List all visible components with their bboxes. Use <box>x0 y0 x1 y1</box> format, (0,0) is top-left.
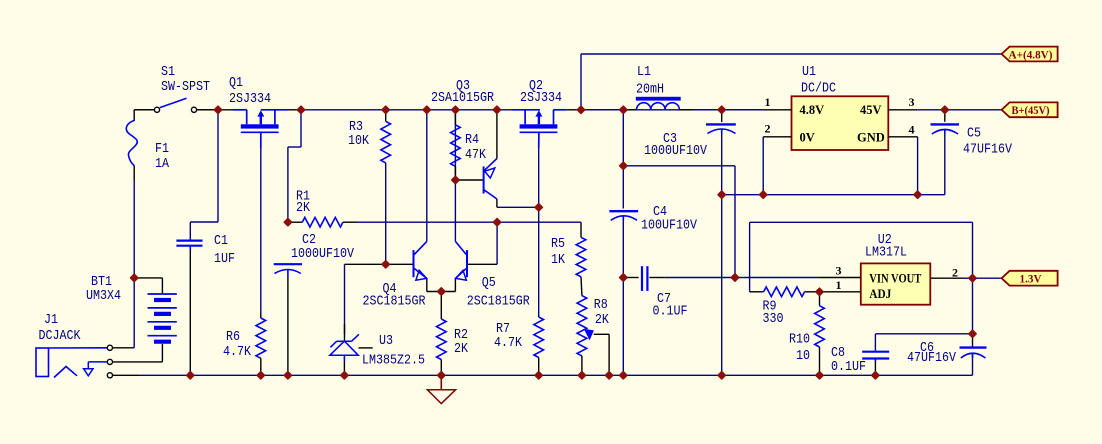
transistor Q5 2SC1815GR <box>455 241 467 280</box>
label S1 <box>161 65 175 80</box>
svg-text:VIN VOUT: VIN VOUT <box>869 271 922 285</box>
capacitor C7 <box>623 266 665 291</box>
wire U1 pin2 drop <box>762 137 764 195</box>
pin number 1 (U2) <box>836 278 842 292</box>
label 2SJ334 (Q1) <box>229 92 271 107</box>
wire bottom ground rail <box>139 374 973 376</box>
svg-text:C5: C5 <box>967 127 981 142</box>
svg-text:Q1: Q1 <box>229 76 243 91</box>
wire U3 riser <box>344 264 346 334</box>
svg-text:2SC1815GR: 2SC1815GR <box>467 295 530 310</box>
svg-text:2SA1015GR: 2SA1015GR <box>431 91 494 106</box>
svg-text:10: 10 <box>796 349 810 364</box>
label LM385Z2.5 <box>362 354 425 369</box>
svg-text:S1: S1 <box>161 65 175 80</box>
label 20mH <box>636 83 664 98</box>
junction (455.4,109.8) <box>451 105 461 115</box>
label C5 <box>967 127 981 142</box>
label 100UF10V <box>641 219 698 234</box>
capacitor C2 <box>274 264 302 375</box>
capacitor C3 <box>706 110 736 134</box>
label R1 <box>296 190 310 205</box>
svg-text:4.8V: 4.8V <box>800 103 825 117</box>
resistor R4 <box>451 110 461 180</box>
label J1 <box>44 313 58 328</box>
label 4.7K (R6) <box>223 345 252 360</box>
wire J1 pin1 riser <box>133 180 135 348</box>
svg-text:2: 2 <box>952 266 958 280</box>
junction (385.7,109.8) <box>381 105 391 115</box>
junction (301,109.8) <box>296 105 306 115</box>
label 1UF <box>214 252 235 267</box>
svg-text:2SJ334: 2SJ334 <box>229 92 271 107</box>
junction (875.4,375.3) <box>871 370 881 380</box>
wire C1 branch jog <box>190 110 218 239</box>
label 47UF16V (C6) <box>907 351 957 366</box>
svg-text:0.1UF: 0.1UF <box>653 305 688 320</box>
label 2K (R8) <box>595 313 610 328</box>
pin name 0V <box>800 130 815 144</box>
diode U3 LM385Z2.5 <box>330 324 373 375</box>
svg-text:1: 1 <box>765 95 771 109</box>
capacitor C4 <box>609 211 638 220</box>
label R4 <box>465 133 479 148</box>
junction (721.7,109.8) <box>717 105 727 115</box>
pin U1.4 <box>888 136 917 138</box>
junction (581.9,375.3) <box>577 370 587 380</box>
label UM3X4 <box>86 289 121 304</box>
svg-text:ADJ: ADJ <box>869 287 891 301</box>
resistor R10 <box>815 292 825 376</box>
junction (441.3,291.5) <box>436 287 446 297</box>
svg-text:C1: C1 <box>214 234 228 249</box>
label 10 <box>796 349 810 364</box>
wire C2 branch jog <box>288 110 301 222</box>
junction (218,109.8) <box>213 105 223 115</box>
label Q5 <box>482 276 496 291</box>
junction (763.2,194.7) <box>758 190 768 200</box>
svg-text:U3: U3 <box>379 334 393 349</box>
junction (623.3,165.8) <box>618 161 628 171</box>
svg-text:2: 2 <box>765 122 771 136</box>
label 1A <box>155 157 170 172</box>
svg-text:2SJ334: 2SJ334 <box>520 91 562 106</box>
wire node to VIN riser <box>623 166 735 278</box>
pin U1.2 <box>763 136 791 138</box>
label Q3 <box>456 79 470 94</box>
svg-text:1: 1 <box>836 278 842 292</box>
svg-text:2K: 2K <box>296 201 311 216</box>
capacitor C1 <box>176 239 202 376</box>
svg-text:10K: 10K <box>348 134 370 149</box>
battery BT1 bottom lead <box>139 344 162 362</box>
wire C7 to VIN <box>665 277 820 279</box>
label C6 <box>920 341 934 356</box>
svg-text:2K: 2K <box>595 313 610 328</box>
pin name ADJ <box>869 287 891 301</box>
wire VOUT to flag <box>963 277 1002 279</box>
pin U1.1 <box>763 109 792 111</box>
junction (735,277.5) <box>730 273 740 283</box>
pin name VIN VOUT <box>869 271 922 285</box>
wire R3 bottom to Q4 base <box>385 163 387 264</box>
svg-text:100UF10V: 100UF10V <box>641 219 698 234</box>
label F1 <box>155 142 169 157</box>
label R7 <box>496 322 510 337</box>
junction (497.1,222.2) <box>492 217 502 227</box>
svg-text:330: 330 <box>763 312 784 327</box>
svg-text:J1: J1 <box>44 313 58 328</box>
label C7 <box>657 292 671 307</box>
junction (581,109.8) <box>576 105 586 115</box>
svg-text:R4: R4 <box>465 133 479 148</box>
resistor R2 <box>437 319 447 375</box>
component U1 DC/DC <box>792 96 889 150</box>
label R3 <box>349 120 363 135</box>
junction (819.5,291.8) <box>815 287 825 297</box>
svg-text:2K: 2K <box>454 342 469 357</box>
svg-text:1UF: 1UF <box>214 252 235 267</box>
label LM317L <box>865 246 907 261</box>
svg-text:R8: R8 <box>594 298 608 313</box>
pin number 4 (U1) <box>909 123 915 137</box>
label 47UF16V (C5) <box>963 142 1013 157</box>
fuse F1 <box>126 110 137 180</box>
wire emitters join <box>427 279 456 320</box>
resistor R1 <box>288 217 357 227</box>
svg-text:R6: R6 <box>226 330 240 345</box>
svg-text:C2: C2 <box>302 233 316 248</box>
svg-text:4.7K: 4.7K <box>494 336 523 351</box>
svg-text:0.1UF: 0.1UF <box>831 360 866 375</box>
svg-text:1A: 1A <box>155 157 170 172</box>
svg-text:3: 3 <box>836 264 842 278</box>
label Q2 <box>529 79 543 94</box>
label DCJACK <box>39 329 82 344</box>
wire C4 bottom to gnd <box>622 220 624 375</box>
wire C4 branch <box>622 110 624 209</box>
svg-text:0V: 0V <box>800 130 815 144</box>
svg-text:3: 3 <box>909 95 915 109</box>
pin number 3 (U2) <box>836 264 842 278</box>
label C4 <box>653 205 667 220</box>
wire Q4 collector riser <box>426 110 428 242</box>
junction (944.8,109.8) <box>940 105 950 115</box>
label 2SC1815GR (Q5) <box>467 295 530 310</box>
junction (385.7,264.3) <box>381 259 391 269</box>
label 1000UF10V (C2) <box>291 247 355 262</box>
transistor Q3 2SA1015GR <box>455 110 497 199</box>
pin name 45V <box>860 103 882 117</box>
pin number 1 (U1) <box>765 95 771 109</box>
capacitor C8 <box>862 352 889 376</box>
wire L1 net left <box>581 109 623 111</box>
wire C3 gnd riser <box>721 134 723 376</box>
svg-text:4: 4 <box>909 123 915 137</box>
label 0.1UF (C7) <box>653 305 688 320</box>
junction (721.7,194.7) <box>717 190 727 200</box>
label L1 <box>637 65 651 80</box>
svg-text:1.3V: 1.3V <box>1020 272 1042 286</box>
wire C6 stem <box>972 334 974 376</box>
svg-text:47UF16V: 47UF16V <box>907 351 957 366</box>
junction (623.3,375.3) <box>618 370 628 380</box>
wire A+ riser and top rail to flag <box>581 54 1002 110</box>
wire Q1 gate to R6 <box>260 148 262 314</box>
label R2 <box>454 328 468 343</box>
pin U1.3 <box>888 109 917 111</box>
transistor Q4 2SC1815GR <box>414 241 427 280</box>
label C8 <box>831 346 845 361</box>
junction (426.8,109.8) <box>422 105 432 115</box>
label C2 <box>302 233 316 248</box>
label 1000UF10V (C3) <box>644 144 708 159</box>
wire U1 pin4 drop <box>917 137 919 195</box>
wire C5 branch <box>918 110 945 195</box>
junction (972.5,333.8) <box>968 329 978 339</box>
wire top rail left <box>134 109 247 111</box>
component U2 LM317L <box>861 263 931 304</box>
label U1 <box>802 65 816 80</box>
pin number 2 (U2) <box>952 266 958 280</box>
label 2K (R1) <box>296 201 311 216</box>
svg-text:F1: F1 <box>155 142 169 157</box>
junction (538.7,375.3) <box>534 370 544 380</box>
label R8 <box>594 298 608 313</box>
label 330 <box>763 312 784 327</box>
pin U2.2 <box>930 277 963 279</box>
svg-text:R7: R7 <box>496 322 510 337</box>
junction (260.8,375.3) <box>256 370 266 380</box>
junction (538.7,207.3) <box>534 202 544 212</box>
svg-text:Q5: Q5 <box>482 276 496 291</box>
pin name 4.8V <box>800 103 825 117</box>
label Q4 <box>383 282 397 297</box>
wire top rail right <box>567 109 763 111</box>
svg-text:A+(4.8V): A+(4.8V) <box>1009 47 1053 61</box>
svg-text:DC/DC: DC/DC <box>801 81 836 96</box>
label 1K <box>551 253 566 268</box>
transistor Q1 2SJ334 <box>233 110 288 148</box>
svg-text:4.7K: 4.7K <box>223 345 252 360</box>
label BT1 <box>91 275 112 290</box>
label U2 <box>878 233 892 248</box>
svg-text:C8: C8 <box>831 346 845 361</box>
battery BT1 UM3X4 <box>134 278 162 294</box>
wire U1 gnd return <box>722 194 945 196</box>
transistor Q2 2SJ334 <box>512 110 567 148</box>
junction (819.5,375.3) <box>815 370 825 380</box>
junction (609.1,375.3) <box>604 370 614 380</box>
pin U2.3 <box>820 277 861 279</box>
junction (917.6,194.7) <box>913 190 923 200</box>
svg-text:47K: 47K <box>465 148 487 163</box>
wire C8 top link <box>875 334 972 351</box>
power flag 1.3V <box>1002 271 1058 286</box>
label R10 <box>789 333 810 348</box>
junction (721.7,375.3) <box>717 370 727 380</box>
wire Q4 base <box>345 263 414 265</box>
resistor R3 <box>381 110 391 163</box>
power flag B+(45V) <box>1002 102 1058 117</box>
junction (972.5,278.2) <box>968 273 978 283</box>
svg-text:47UF16V: 47UF16V <box>963 142 1013 157</box>
resistor R6 <box>256 314 266 376</box>
label 10K <box>348 134 370 149</box>
switch S1 SW-SPST <box>134 98 218 112</box>
label 2SJ334 (Q2) <box>520 91 562 106</box>
svg-text:R3: R3 <box>349 120 363 135</box>
svg-text:R5: R5 <box>551 237 565 252</box>
wire Q3 collector to Q2 gate <box>497 199 539 207</box>
power flag A+(4.8V) <box>1002 47 1058 62</box>
wire VOUT to C6 <box>972 278 974 334</box>
resistor R7 <box>534 317 544 375</box>
label R5 <box>551 237 565 252</box>
pin U2.1 <box>820 291 861 293</box>
junction (287.9,375.3) <box>283 370 293 380</box>
svg-text:2SC1815GR: 2SC1815GR <box>363 295 426 310</box>
resistor R9 <box>764 287 820 297</box>
ground <box>427 375 455 403</box>
resistor R5 <box>576 237 586 295</box>
wire R8 wiper to gnd <box>594 334 609 375</box>
pin number 3 (U1) <box>909 95 915 109</box>
capacitor C6 <box>960 348 987 358</box>
label SW-SPST <box>161 80 210 95</box>
battery BT1 plates <box>148 294 177 342</box>
label R9 <box>763 300 777 315</box>
svg-text:R2: R2 <box>454 328 468 343</box>
junction (455.4,180) <box>451 175 461 185</box>
svg-text:1000UF10V: 1000UF10V <box>291 247 355 262</box>
svg-text:U1: U1 <box>802 65 816 80</box>
svg-text:1000UF10V: 1000UF10V <box>644 144 708 159</box>
wire VOUT loop <box>750 222 973 291</box>
svg-text:LM385Z2.5: LM385Z2.5 <box>362 354 425 369</box>
svg-text:R10: R10 <box>789 333 810 348</box>
label 2SA1015GR <box>431 91 494 106</box>
label DC/DC <box>801 81 836 96</box>
svg-text:BT1: BT1 <box>91 275 112 290</box>
svg-text:LM317L: LM317L <box>865 246 907 261</box>
label 4.7K (R7) <box>494 336 523 351</box>
label 0.1UF (C8) <box>831 360 866 375</box>
pin number 2 (U1) <box>765 122 771 136</box>
label 2SC1815GR (Q4) <box>363 295 426 310</box>
label C3 <box>663 132 677 147</box>
label R6 <box>226 330 240 345</box>
label 47K <box>465 148 487 163</box>
wire B+ to flag <box>945 109 1002 111</box>
wire mid horizontal R1 to R5 <box>357 221 580 223</box>
junction (344.4,375.3) <box>340 370 350 380</box>
wire Q5 collector riser <box>454 110 456 242</box>
connector J1 DCJACK <box>36 345 139 378</box>
inductor L1 20mH <box>623 97 692 110</box>
wire Q5 base riser <box>467 222 497 264</box>
svg-text:DCJACK: DCJACK <box>39 329 82 344</box>
svg-text:20mH: 20mH <box>636 83 664 98</box>
label U3 <box>379 334 393 349</box>
junction (134.2,277.9) <box>129 273 139 283</box>
junction (441.3,375.3) <box>436 370 446 380</box>
label 2K (R2) <box>454 342 469 357</box>
wire top rail mid <box>288 109 512 111</box>
label Q1 <box>229 76 243 91</box>
junction (496.9,109.8) <box>492 105 502 115</box>
junction (623.3,109.8) <box>618 105 628 115</box>
svg-text:GND: GND <box>857 130 885 144</box>
potentiometer R8 2K <box>577 296 594 376</box>
capacitor C5 <box>931 124 960 134</box>
pin name GND <box>857 130 885 144</box>
junction (623.3,277.5) <box>618 273 628 283</box>
svg-text:B+(45V): B+(45V) <box>1012 103 1050 117</box>
svg-text:SW-SPST: SW-SPST <box>161 80 210 95</box>
junction (287.9,222.2) <box>283 217 293 227</box>
label C1 <box>214 234 228 249</box>
svg-text:L1: L1 <box>637 65 651 80</box>
wire R5 top corner <box>579 222 582 237</box>
svg-text:UM3X4: UM3X4 <box>86 289 121 304</box>
svg-text:45V: 45V <box>860 103 882 117</box>
wire L1 to C3 node <box>692 109 763 111</box>
wire Q2 gate to R7 <box>538 148 540 317</box>
junction (190.3,375.3) <box>185 370 195 380</box>
svg-text:1K: 1K <box>551 253 566 268</box>
